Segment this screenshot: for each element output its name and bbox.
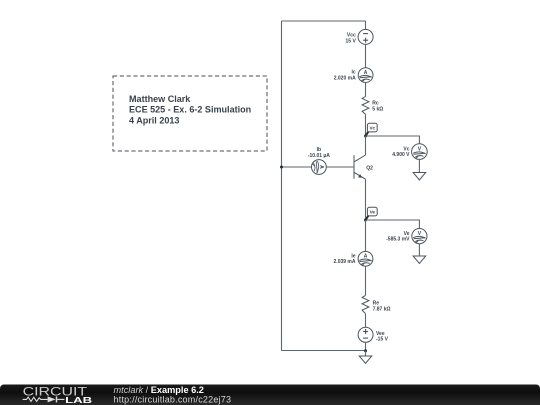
label Vcc 15 V bbox=[346, 33, 357, 45]
svg-text:Q2: Q2 bbox=[366, 165, 373, 171]
label Rc 5 kOhm bbox=[372, 101, 383, 113]
label Ve -585.3 mV bbox=[386, 231, 410, 243]
wire Ve to ammeter Ie bbox=[365, 220, 367, 251]
footer bar bbox=[0, 385, 540, 405]
ground (bottom) bbox=[359, 356, 372, 363]
label Ie 2.039 mA bbox=[334, 253, 356, 265]
ground (under voltmeter Ve) bbox=[413, 256, 426, 264]
resistor Rc bbox=[362, 97, 369, 115]
wire voltmeter Ve to ground bbox=[418, 244, 420, 256]
svg-text:4.900 V: 4.900 V bbox=[392, 152, 410, 158]
ammeter Ie bbox=[358, 251, 373, 266]
wire Vee to ground node bbox=[365, 342, 367, 350]
label Vc 4.900 V bbox=[392, 146, 410, 158]
svg-text:-585.3 mV: -585.3 mV bbox=[386, 237, 410, 243]
wire voltmeter Vc to ground bbox=[418, 159, 420, 172]
wire base bbox=[282, 166, 312, 168]
svg-text:7.87 kΩ: 7.87 kΩ bbox=[373, 306, 391, 312]
CircuitLab logo bbox=[23, 385, 93, 405]
label Ic 2.020 mA bbox=[334, 70, 356, 82]
svg-text:15 V: 15 V bbox=[346, 38, 357, 44]
svg-text:Ve: Ve bbox=[370, 210, 376, 215]
svg-text:ECE 525 - Ex. 6-2 Simulation: ECE 525 - Ex. 6-2 Simulation bbox=[129, 105, 251, 115]
label Vee -15 V bbox=[376, 331, 389, 343]
svg-text:5 kΩ: 5 kΩ bbox=[372, 107, 383, 113]
wire bottom bbox=[282, 350, 366, 352]
junction (base on left rail) bbox=[280, 166, 283, 169]
wire node Vc to voltmeter bbox=[366, 136, 420, 144]
wire Re to Vee bbox=[365, 314, 367, 328]
voltage source Vee bbox=[358, 327, 373, 342]
svg-text:-15 V: -15 V bbox=[376, 337, 389, 343]
label Ib -10.01 uA bbox=[308, 147, 330, 159]
voltmeter Ve bbox=[412, 229, 427, 244]
ammeter Ic bbox=[358, 68, 373, 83]
ammeter Ib bbox=[312, 160, 327, 175]
wire Ie to Re bbox=[365, 266, 367, 295]
voltmeter Vc bbox=[412, 144, 428, 160]
transistor Q2 bbox=[354, 155, 366, 179]
wire collector bbox=[365, 136, 367, 155]
wire emitter bbox=[365, 179, 367, 220]
svg-text:LAB: LAB bbox=[65, 395, 92, 405]
annotation text box bbox=[113, 76, 267, 151]
footer title bbox=[114, 385, 204, 395]
svg-text:-10.01 µA: -10.01 µA bbox=[308, 153, 330, 159]
svg-text:Vc: Vc bbox=[369, 126, 375, 131]
wire node Ve to voltmeter bbox=[366, 220, 420, 229]
wire Vcc top lead bbox=[365, 21, 367, 30]
svg-text:2.039 mA: 2.039 mA bbox=[334, 259, 356, 265]
node Vc bbox=[364, 123, 377, 137]
wire left rail bbox=[281, 21, 283, 351]
label Re 7.87 kOhm bbox=[373, 300, 391, 312]
wire ground lead bbox=[365, 351, 367, 356]
wire Vcc to Ic bbox=[365, 44, 367, 67]
junction (bottom ground node) bbox=[364, 349, 367, 352]
svg-text:http://circuitlab.com/c22ej73: http://circuitlab.com/c22ej73 bbox=[114, 395, 232, 405]
ground (under voltmeter Vc) bbox=[413, 173, 426, 181]
svg-text:4 April 2013: 4 April 2013 bbox=[129, 116, 179, 126]
svg-text:2.020 mA: 2.020 mA bbox=[334, 75, 356, 81]
node Ve bbox=[364, 207, 377, 221]
wire Rc to node Vc bbox=[365, 115, 367, 137]
resistor Re bbox=[362, 295, 369, 313]
svg-text:Re: Re bbox=[373, 300, 380, 306]
wire ammeter Ib to base bbox=[326, 166, 354, 168]
voltage source Vcc bbox=[358, 29, 373, 44]
wire Ic to Rc bbox=[365, 82, 367, 96]
svg-text:Matthew Clark: Matthew Clark bbox=[129, 94, 191, 104]
wire top bbox=[282, 20, 366, 22]
